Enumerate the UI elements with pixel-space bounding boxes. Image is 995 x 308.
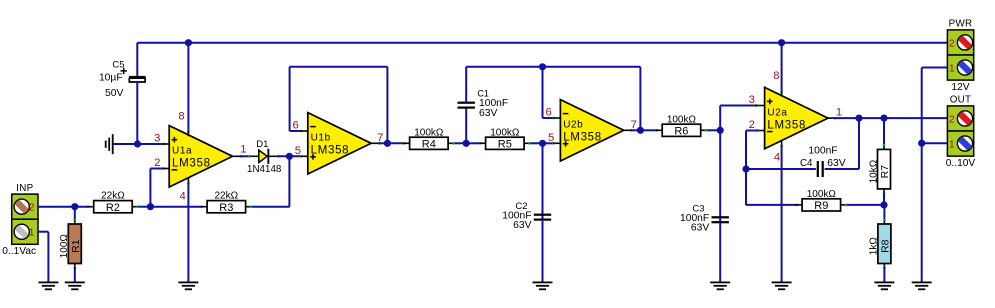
ground C2 [533,282,553,291]
pin 2 label U1a [154,157,160,169]
resistor R7 [868,118,891,205]
ground INP pin1 [38,282,58,291]
svg-text:2: 2 [29,202,35,214]
svg-text:63V: 63V [691,223,709,234]
pin 3 label U2a [749,94,755,106]
svg-text:8: 8 [178,110,184,122]
node U2b out/feedback [637,127,644,134]
ground R8 [874,282,894,291]
wire U2a pin4 to ground [780,140,782,281]
wire R3 to riser corner [288,206,290,208]
wire U2b pin5 stub [543,142,561,144]
node D1/R3/U1b pin5 [286,153,293,160]
wire R9 branch [746,169,796,205]
node out/C4 leg [855,115,862,122]
node U1b out/feedback [384,140,391,147]
svg-text:PWR: PWR [949,19,973,30]
svg-text:6: 6 [546,107,552,119]
svg-text:R1: R1 [70,239,82,253]
node OUT pin1/gnd leg [918,140,925,147]
svg-text:R7: R7 [879,165,891,179]
svg-text:4: 4 [179,190,185,202]
wire U2a out to OUT-2 [828,117,947,119]
svg-text:R6: R6 [674,126,688,138]
svg-text:R3: R3 [219,202,233,214]
pin 6 label U2b [546,107,552,119]
connector INP [2,183,38,257]
pin 1 label U2a [836,107,842,119]
ground C3 [710,282,730,291]
svg-text:R9: R9 [814,200,828,212]
svg-text:22kΩ: 22kΩ [101,191,125,202]
capacitor C4 [746,118,859,177]
diode D1 [247,139,282,175]
svg-text:22kΩ: 22kΩ [214,191,238,202]
svg-text:63V: 63V [479,108,497,119]
pin 1 label U1a [240,143,246,155]
svg-text:C5: C5 [112,60,124,71]
resistor R2 [87,191,150,214]
wire U2b feedback right leg [639,67,641,131]
resistor R4 [387,127,466,150]
svg-text:1: 1 [836,107,842,119]
wire R3 riser [288,156,290,206]
node U2a pin2/C4/R9 [742,165,749,172]
capacitor C3 [680,130,729,281]
capacitor C5 [99,43,146,144]
ground (rotated, U1a + input) [105,134,114,154]
wire U2b pin6 net [543,67,561,119]
svg-text:63V: 63V [513,220,531,231]
svg-text:2: 2 [749,119,755,131]
pin 7 label U1b [377,132,383,144]
pin 6 label U1b [292,120,298,132]
node R5/C2/U2b pin5 [539,140,546,147]
svg-text:LM358: LM358 [311,145,350,157]
svg-text:3: 3 [154,133,160,145]
svg-text:U1b: U1b [311,133,331,144]
svg-text:0..10V: 0..10V [946,158,976,169]
svg-text:63V: 63V [827,158,845,169]
svg-text:R5: R5 [498,139,512,151]
node R2/R3/U1a pin2 [147,203,154,210]
svg-text:OUT: OUT [950,95,972,106]
wire U2b out [624,129,643,131]
wire U2b feedback rail [466,66,640,68]
wire U1a pin4 to ground [187,177,189,281]
op-amp U1a [169,126,232,187]
svg-text:R2: R2 [106,202,120,214]
pin 2 label U2a [749,119,755,131]
node bus/U2a pin8 [778,39,785,46]
wire U2a pin2 net [746,129,765,169]
resistor R8 [869,205,892,282]
svg-text:LM358: LM358 [563,132,602,144]
svg-text:1: 1 [949,62,955,74]
svg-text:12V: 12V [951,82,969,93]
svg-text:R4: R4 [422,139,436,151]
svg-text:2: 2 [949,113,955,125]
svg-text:3: 3 [749,94,755,106]
svg-text:10kΩ: 10kΩ [868,159,879,183]
capacitor C1 [458,67,509,144]
pin 8 label U1a [178,110,184,122]
wire +12V top bus [137,42,947,44]
svg-text:10µF: 10µF [99,73,123,84]
svg-text:100kΩ: 100kΩ [490,127,520,138]
wire INP pin2 to R2 [38,206,87,208]
node rail/U2b pin6 [539,63,546,70]
svg-text:4: 4 [774,151,780,163]
ground U1a pin4 [178,282,198,291]
ground U2a pin4 [772,282,792,291]
svg-text:2: 2 [949,37,955,49]
svg-text:7: 7 [377,132,383,144]
svg-text:7: 7 [631,119,637,131]
pin 3 label U1a [154,133,160,145]
op-amp U1b [308,113,371,174]
ground R1 [65,282,85,291]
svg-text:100nF: 100nF [808,146,837,157]
node R1 top [71,203,78,210]
connector OUT [946,95,976,169]
wire U1a pin3 net [114,143,169,145]
svg-text:LM358: LM358 [172,158,211,170]
node R6/C3/U2a pin3 [717,127,724,134]
pin 5 label U1b [295,145,301,157]
svg-text:INP: INP [16,183,33,194]
resistor R6 [640,114,720,137]
resistor R3 [150,191,289,214]
svg-text:C4: C4 [800,158,813,169]
svg-text:5: 5 [548,132,554,144]
wire U1b out [371,142,390,144]
svg-text:1: 1 [29,227,35,239]
pin 7 label U2b [631,119,637,131]
wire U1a out to D1 [233,155,259,157]
svg-text:D1: D1 [256,139,268,150]
svg-text:100kΩ: 100kΩ [807,189,837,200]
resistor R9 [795,189,884,212]
svg-text:1: 1 [949,138,955,150]
wire PWR pin1 gnd leg [922,68,948,282]
svg-text:100Ω: 100Ω [59,234,70,259]
svg-text:U2a: U2a [767,108,787,119]
wire OUT pin1 to gnd leg [922,142,948,144]
node R4/R5/C1 [463,140,470,147]
node out/R7 leg [880,115,887,122]
node R7/R8/R9 [880,201,887,208]
wire U2a pin8 to bus [780,43,782,97]
svg-text:R8: R8 [880,239,892,253]
ground PWR/OUT return [912,282,932,291]
connector PWR [947,19,973,93]
svg-text:5: 5 [295,145,301,157]
wire U1a pin8 to bus [187,43,189,137]
svg-text:1: 1 [240,143,246,155]
svg-text:50V: 50V [105,88,123,99]
op-amp U2b [560,100,623,161]
pin 4 label U2a [774,151,780,163]
wire U2a pin3 net [720,104,764,130]
node bus/U1a pin8 [185,39,192,46]
svg-text:LM358: LM358 [767,119,806,131]
pin 5 label U2b [548,132,554,144]
svg-text:U1a: U1a [172,146,192,157]
op-amp U2a [765,87,828,148]
svg-text:1N4148: 1N4148 [247,164,282,175]
wire U1a pin2 net [150,167,169,206]
svg-text:U2b: U2b [563,120,583,131]
svg-text:0..1Vac: 0..1Vac [2,246,36,257]
resistor R1 [59,207,82,282]
pin 8 label U2a [773,70,779,82]
svg-text:6: 6 [292,120,298,132]
wire INP pin1 to ground [38,232,48,282]
capacitor C2 [502,143,551,281]
svg-text:C1: C1 [477,88,489,98]
svg-text:8: 8 [773,70,779,82]
resistor R5 [466,127,542,150]
svg-text:100kΩ: 100kΩ [414,127,444,138]
svg-text:1kΩ: 1kΩ [869,237,880,256]
svg-text:2: 2 [154,157,160,169]
pin 4 label U1a [179,190,185,202]
wire D1 to U1b pin5 [269,155,308,157]
wire U1b pin6 + feedback loop [290,67,388,144]
svg-text:100kΩ: 100kΩ [667,114,697,125]
node C5/GND/pin3 junction [134,140,141,147]
